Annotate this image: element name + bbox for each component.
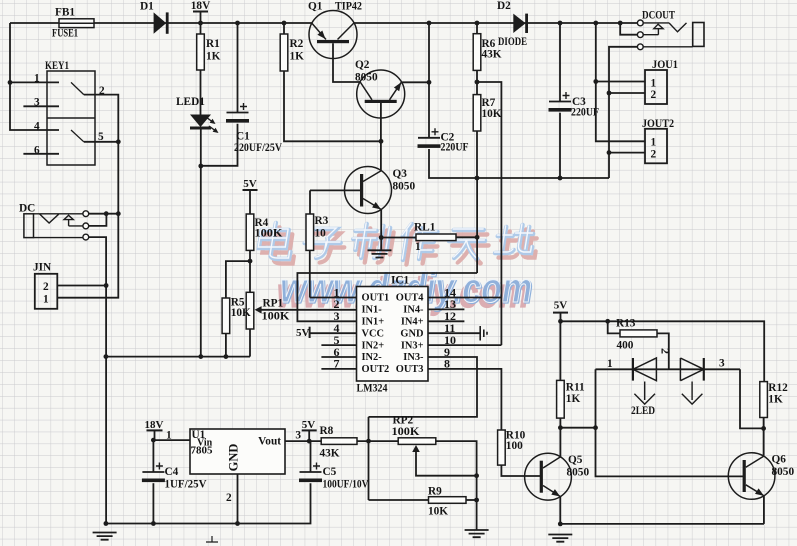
svg-text:Q5: Q5 [568,454,583,466]
wire R9 right [466,499,477,501]
stray mark [206,536,218,542]
svg-text:1UF/25V: 1UF/25V [165,479,208,491]
wire C3 top [559,23,561,102]
junction RP2 wiper node [474,473,479,478]
svg-text:1K: 1K [768,394,783,406]
wire JOU1 pin1 [596,23,645,141]
junction C3 rail [558,21,563,26]
wire R2 top [283,23,285,34]
svg-text:1: 1 [651,77,657,89]
svg-text:5V: 5V [296,327,310,339]
svg-text:Q6: Q6 [772,454,787,466]
wire U1 Vin [155,439,191,441]
svg-text:1: 1 [651,137,657,149]
svg-text:8050: 8050 [355,72,378,84]
ground RP2/R9 [465,530,489,537]
wire pin5 stub [321,344,356,346]
connector JOU1 [645,70,667,104]
svg-text:R3: R3 [315,215,329,227]
svg-text:C4: C4 [165,466,179,478]
diode D2 [513,14,525,33]
svg-text:IN2-: IN2- [362,352,383,363]
junction R1 top rail [198,21,203,26]
wire DC tip to node [89,213,119,215]
wire DCOUT ring to rail [620,23,637,35]
svg-text:DC: DC [19,203,35,215]
svg-text:2: 2 [226,492,232,504]
svg-text:IN3+: IN3+ [401,340,424,351]
junction DC tip A [104,211,109,216]
wire JIN pin2 stub [57,285,106,287]
svg-text:IN4+: IN4+ [401,317,424,328]
wire C1 top [237,23,239,113]
potentiometer RP1 [246,292,254,329]
svg-text:R12: R12 [768,382,788,394]
svg-text:43K: 43K [320,448,340,460]
svg-text:IN3-: IN3- [403,352,424,363]
svg-text:220UF/25V: 220UF/25V [234,142,283,154]
wire R7 bottom [476,131,478,178]
svg-text:RP2: RP2 [393,415,414,427]
junction C3 bottom rail [558,176,563,181]
wire R11 bottom [559,418,561,428]
wire node3 down [740,369,764,428]
junction left rail corner [104,521,109,526]
junction R5 bottom [224,354,229,359]
wire ground bus to DC jack net [106,356,250,358]
wire JOU1 pin2 stub [609,92,645,94]
wire RP2 wiper [416,452,477,476]
wire Q3 emitter down [380,209,382,250]
wire R10 to Q5 base [501,465,541,476]
svg-text:OUT1: OUT1 [362,293,390,304]
wire C4 bottom [152,483,154,523]
resistor R10 [498,430,506,465]
junction JOUT2 pin2 node [607,150,612,155]
junction JOU1 pin2 node [607,91,612,96]
wire JOUT2 pin2 stub [609,152,645,154]
svg-text:1: 1 [607,358,613,370]
svg-text:TIP42: TIP42 [335,1,362,13]
junction JOU1 rail [593,21,598,26]
svg-text:C1: C1 [236,131,250,143]
wire U1 gnd pin2 [237,474,239,524]
svg-text:10K: 10K [482,108,502,120]
wire Q1 base down to Q2 [333,43,360,82]
wire Q2 base down to Q3 [380,103,382,171]
LED D4 (right of 2LED) [680,358,703,381]
svg-text:8050: 8050 [567,467,590,479]
wire pin1 [310,297,357,299]
svg-text:C5: C5 [323,466,337,478]
wire left gnd drop [105,523,106,525]
wire C5 bottom [105,483,311,523]
junction C2 rail [427,21,432,26]
wire R11 top [559,321,561,380]
svg-text:D2: D2 [497,0,511,12]
svg-text:3: 3 [719,358,725,370]
op-amp IC1 LM324 [357,287,429,382]
svg-text:2: 2 [651,148,657,160]
wire C1 bottom [202,124,238,166]
svg-text:5V: 5V [302,419,316,431]
power 18V top [193,11,208,13]
wire pin8 to R10 [428,369,501,430]
transistor Q1 TIP42 [309,11,357,59]
svg-text:43K: 43K [482,49,502,61]
fuse FB1 [59,19,94,28]
svg-text:400: 400 [617,340,634,352]
junction R7 bottom rail [475,176,480,181]
junction R11 bottom [558,425,563,430]
svg-text:Q2: Q2 [355,59,370,71]
svg-text:5V: 5V [243,178,257,190]
transistor Q2 8050 [357,70,405,118]
wire 5V rail right [561,321,765,381]
wire pin4 [310,332,357,334]
svg-text:VCC: VCC [362,328,385,339]
svg-text:1: 1 [34,73,40,85]
transistor Q6 8050 [728,453,775,500]
svg-text:10K: 10K [428,506,448,518]
wire C3 bottom [559,113,561,178]
wire R12 bottom [763,418,765,429]
wire R2 to Q2 base node [284,71,381,141]
junction C4 bottom [151,521,156,526]
svg-text:OUT2: OUT2 [362,364,390,375]
LED D3 (left of 2LED) [632,358,634,381]
wire node1 link [560,427,595,429]
junction Vout node [307,439,312,444]
transistor Q5 8050 [525,453,572,500]
svg-text:Vout: Vout [258,436,281,448]
wire U1 Vout [285,440,321,442]
junction 5V R11 [558,319,563,324]
svg-text:4: 4 [34,121,40,133]
junction DC tip B [116,211,121,216]
wire RP1 bottom [249,329,251,357]
capacitor C2 [418,137,440,139]
ground Q5 [548,535,572,542]
svg-text:DIODE: DIODE [498,36,527,48]
wire pin9 net vertical [368,417,370,500]
wire R3 bottom to pin1 [309,250,311,297]
svg-text:IN1+: IN1+ [362,317,385,328]
svg-text:5V: 5V [554,300,568,312]
ground Q3 emitter [368,250,392,257]
wire KEY1 pin2 down [57,95,118,298]
svg-text:8050: 8050 [393,181,416,193]
wire C5 top [310,441,312,472]
svg-text:D1: D1 [140,1,154,13]
svg-text:1: 1 [415,241,421,253]
svg-text:IN4-: IN4- [403,305,424,316]
junction U1 pin2 bottom [235,521,240,526]
svg-text:100K: 100K [392,426,420,438]
wire pin10 to node [428,344,501,346]
svg-text:R9: R9 [428,486,442,498]
wire pin12 stub [428,320,464,322]
junction LED branch [198,354,203,359]
svg-text:RP1: RP1 [263,298,284,310]
svg-text:2LED: 2LED [631,405,655,417]
junction Q5 emitter [558,522,563,527]
svg-text:10: 10 [315,228,327,240]
wire rail down to C2 [428,23,430,138]
junction R2 rail [282,21,287,26]
wire Q2 collector to C2 node [401,81,429,83]
wire bottom rail right [560,523,764,525]
svg-text:OUT3: OUT3 [396,364,424,375]
svg-text:220UF: 220UF [571,107,599,119]
wire DC ring [89,214,107,226]
junction R6 R7 [475,80,480,85]
svg-text:JIN: JIN [33,262,52,274]
svg-text:OUT4: OUT4 [396,293,424,304]
wire R6 top [476,23,478,34]
wire node1 to Q6 base [596,369,745,476]
resistor R5 [222,298,230,334]
svg-text:R13: R13 [616,318,636,330]
resistor R4 [246,214,254,250]
potentiometer RP2 [398,438,436,445]
wire R1 to LED1 [200,70,202,115]
wire R6R7 node right-down [477,82,501,345]
svg-text:1K: 1K [206,51,221,63]
svg-text:GND: GND [227,444,241,472]
wire pin6 stub [321,356,356,358]
junction LED1 C1 [198,164,203,169]
wire left branch to KEY1 pin4 [10,23,59,130]
svg-text:JOUT2: JOUT2 [642,118,674,130]
wire R9 left [369,499,429,501]
svg-text:IN2+: IN2+ [362,340,385,351]
svg-text:18V: 18V [145,419,164,431]
svg-text:FUSE1: FUSE1 [52,28,78,40]
svg-text:IN1-: IN1- [362,305,383,316]
LED LED1 [190,115,211,128]
wire pin3 [297,273,477,321]
junction KEY1 pin5 [116,139,121,144]
diode D1 [154,12,167,33]
potentiometer RP1 wiper [255,306,262,314]
wire pin9 to RP2 net [369,357,478,417]
junction R9 right [474,498,479,503]
wire DCOUT sleeve down [609,47,637,178]
wire LED1 cathode down [200,130,202,357]
wire pin14 to node [428,297,501,299]
svg-text:100K: 100K [255,228,283,240]
wire Q6 collector [763,428,765,456]
junction JOU1 pin1 [593,79,598,84]
svg-text:FB1: FB1 [55,7,75,19]
svg-text:1: 1 [43,294,49,306]
svg-text:100UF/10V: 100UF/10V [323,479,370,491]
wire R6 R7 link [476,70,478,94]
wire KEY1 pin5 [84,141,119,143]
wire pin7 stub [321,368,356,370]
svg-text:LM324: LM324 [357,383,388,395]
wire RL1 right [456,236,477,238]
junction Q2 collector [427,80,432,85]
svg-text:R2: R2 [290,38,304,50]
wire Q6 emitter [763,496,765,524]
wire R8 right [357,440,398,442]
wire R13 right to node2 [657,333,669,369]
wire Q3 base to R3 [310,190,362,214]
svg-text:100: 100 [506,440,523,452]
svg-text:KEY1: KEY1 [45,60,69,72]
resistor R7 [473,95,481,131]
svg-text:3: 3 [295,429,301,441]
svg-text:100K: 100K [262,311,290,323]
wire pin13 stub [428,308,464,310]
svg-text:IC1: IC1 [391,275,410,287]
junction DCOUT ring rail [618,21,623,26]
svg-text:10K: 10K [231,307,251,319]
junction R6 rail [475,21,480,26]
wire R13 left [608,321,620,333]
wire KEY1 pin1 [10,81,59,83]
svg-text:7805: 7805 [191,445,214,457]
resistor R8 [321,438,357,445]
junction C4 top [151,438,156,443]
wire RP2 right [436,441,477,530]
svg-text:2: 2 [43,281,49,293]
wire JOU1 pin1 stub [596,81,645,83]
wire R4 bottom [249,250,251,292]
junction JIN pin2 [104,283,109,288]
svg-text:R1: R1 [206,38,220,50]
junction node1 [593,425,598,430]
wire top 18V rail [10,22,637,24]
junction Q2-R2 node [379,139,384,144]
regulator U1 7805 [190,429,285,474]
svg-text:220UF: 220UF [441,142,469,154]
wire Q5 collector [559,428,561,457]
junction R13 branch [605,319,610,324]
resistor R12 [760,382,768,418]
junction R8 RP2 node [366,439,371,444]
watermark [257,222,539,316]
svg-text:R8: R8 [320,425,334,437]
junction Q3 emitter RL1 [379,235,384,240]
svg-text:1K: 1K [290,51,305,63]
svg-text:DCOUT: DCOUT [642,10,675,22]
junction R12 bottom [761,426,766,431]
svg-text:Q1: Q1 [308,1,323,13]
transistor Q3 8050 [345,167,392,214]
wire KEY1 pin3 stub [23,105,59,107]
svg-text:1K: 1K [566,393,581,405]
wire DC sleeve down [89,237,106,523]
svg-text:LED1: LED1 [176,96,205,108]
connector JIN [35,274,58,309]
capacitor C4 [152,440,154,472]
svg-text:R11: R11 [566,382,585,394]
svg-text:8050: 8050 [772,466,795,478]
wire RL1 node down to IN1+ [476,237,478,273]
wire pin11 stub [428,332,480,334]
svg-text:2: 2 [659,348,673,354]
wire Q3 to RL1 [381,237,416,239]
wire branch to R5 [226,261,250,298]
wire LED row [596,368,741,370]
switch KEY1 [47,71,95,165]
connector JOUT2 [645,129,667,164]
junction RL1 right [475,235,480,240]
wire R5 bottom [225,334,227,357]
wire C2 bottom [429,149,609,178]
svg-text:Q3: Q3 [393,168,408,180]
resistor R1 [200,23,202,34]
junction R4 R5 RP1 [248,259,253,264]
junction bus left [104,354,109,359]
wire RP1 wiper to IC pin2 [260,309,357,311]
wire Q5 emitter [559,497,561,524]
wire RL1 node up to R7 [476,178,478,237]
wire KEY1 pin6 stub [23,153,59,155]
svg-text:RL1: RL1 [414,222,436,234]
junction pin1 left [8,80,13,85]
svg-text:18V: 18V [191,0,211,12]
svg-text:2: 2 [651,89,657,101]
svg-text:JOU1: JOU1 [652,59,678,71]
junction C1 rail [235,21,240,26]
svg-text:GND: GND [400,328,423,339]
